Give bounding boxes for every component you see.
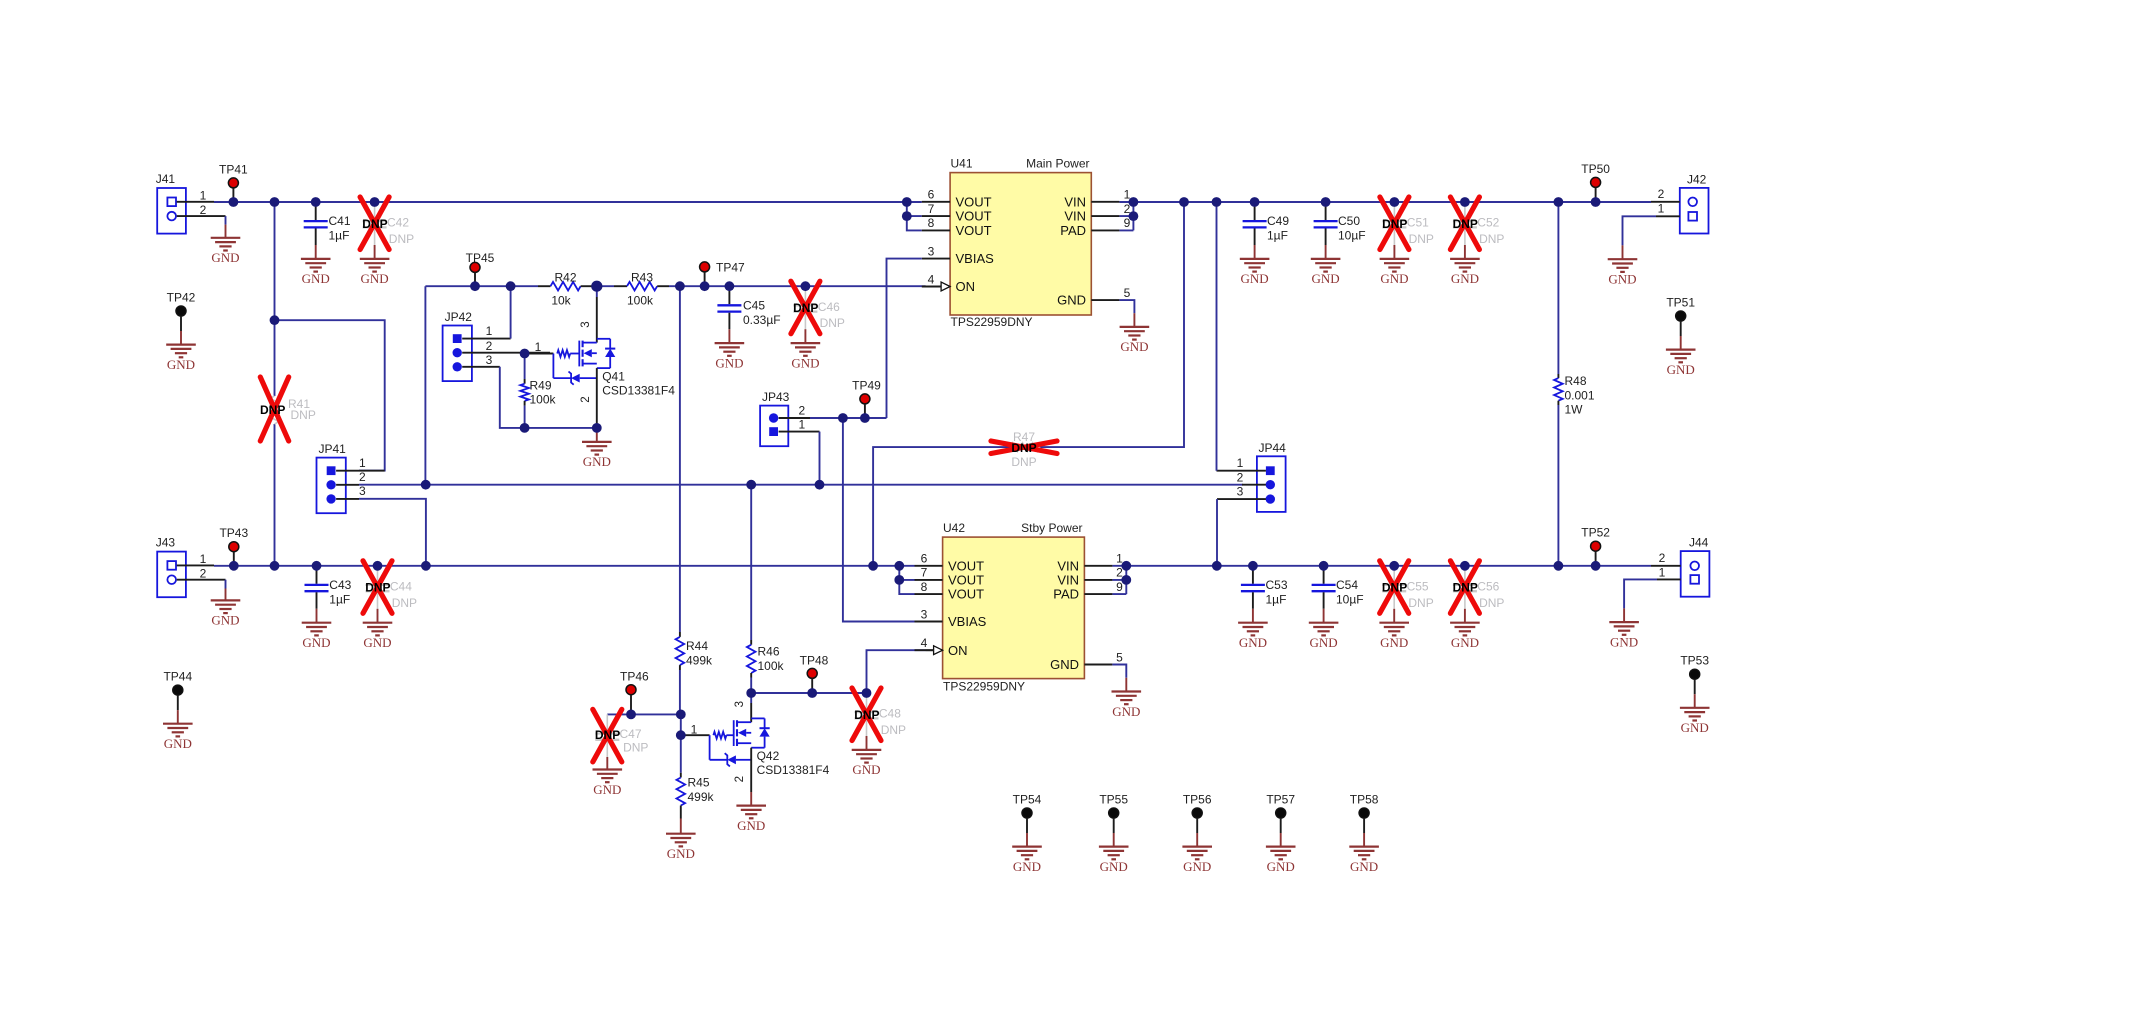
pin U41 VOUT 7 xyxy=(922,215,950,217)
svg-text:VIN: VIN xyxy=(1064,209,1086,224)
connector J41 xyxy=(157,188,186,234)
wire U42 VBIAS vertical xyxy=(843,418,915,622)
svg-text:GND: GND xyxy=(583,454,611,469)
svg-text:GND: GND xyxy=(852,762,880,777)
svg-text:2: 2 xyxy=(359,470,366,484)
svg-text:100k: 100k xyxy=(758,659,785,673)
junction dots U41 pin7 xyxy=(902,211,912,221)
svg-text:1: 1 xyxy=(1658,202,1665,216)
pin U41 VIN 1 xyxy=(1091,201,1119,203)
svg-text:DNP: DNP xyxy=(365,581,390,595)
wire Q41 source to rail xyxy=(596,368,598,424)
svg-text:GND: GND xyxy=(1667,362,1695,377)
pin U42 VOUT 8 xyxy=(915,593,943,595)
svg-text:JP42: JP42 xyxy=(445,310,473,324)
svg-text:TP48: TP48 xyxy=(800,653,829,667)
resistor R44 499k xyxy=(679,286,681,632)
svg-text:GND: GND xyxy=(1013,859,1041,874)
svg-text:JP41: JP41 xyxy=(319,442,347,456)
svg-text:VIN: VIN xyxy=(1057,573,1079,588)
capacitor C52 DNP xyxy=(1464,202,1466,220)
junction dots U42 pin7 xyxy=(894,575,904,585)
pin U42 ON 4 xyxy=(915,649,943,651)
IC U42 TPS22959DNY Stby Power xyxy=(943,537,1085,679)
svg-text:DNP: DNP xyxy=(1382,217,1407,231)
svg-text:GND: GND xyxy=(791,355,819,370)
svg-text:TP42: TP42 xyxy=(167,291,196,305)
ground Q42 source xyxy=(750,792,752,806)
svg-text:499k: 499k xyxy=(688,790,715,804)
svg-text:GND: GND xyxy=(1112,704,1140,719)
svg-text:TP46: TP46 xyxy=(620,670,649,684)
capacitor C49 1uF xyxy=(1254,202,1256,220)
transistor Q41 CSD13381F4 xyxy=(596,286,598,297)
svg-text:VOUT: VOUT xyxy=(948,587,984,602)
svg-text:GND: GND xyxy=(361,271,389,286)
svg-text:TP43: TP43 xyxy=(219,526,248,540)
svg-text:TP56: TP56 xyxy=(1183,793,1212,807)
svg-text:VOUT: VOUT xyxy=(956,209,992,224)
pin U41 VBIAS 3 xyxy=(922,258,950,260)
svg-text:1: 1 xyxy=(486,324,493,338)
wire U41 VBIAS net to TP49 row xyxy=(887,259,922,418)
wire Stby rail (left of U42) xyxy=(214,565,915,567)
capacitor C53 1uF xyxy=(1252,566,1254,584)
svg-text:GND: GND xyxy=(1380,271,1408,286)
svg-text:DNP: DNP xyxy=(1479,232,1504,246)
wire JP44-2 stub xyxy=(1242,484,1266,486)
svg-text:C50: C50 xyxy=(1338,214,1360,228)
svg-text:TPS22959DNY: TPS22959DNY xyxy=(943,679,1025,693)
svg-text:DNP: DNP xyxy=(260,403,285,417)
svg-text:J43: J43 xyxy=(156,536,176,550)
svg-text:GND: GND xyxy=(302,635,330,650)
svg-text:2: 2 xyxy=(734,776,746,782)
wire Q42 source down xyxy=(750,748,752,792)
svg-text:1: 1 xyxy=(691,722,698,736)
svg-text:TP57: TP57 xyxy=(1266,793,1295,807)
capacitor C48 DNP xyxy=(866,693,868,711)
pin U41 VIN 2 xyxy=(1091,215,1119,217)
svg-text:CSD13381F4: CSD13381F4 xyxy=(602,383,675,397)
wire VIN top rail (right of U41) xyxy=(1119,201,1651,203)
junction dots ON net row xyxy=(470,281,480,291)
svg-text:TP47: TP47 xyxy=(716,261,745,275)
svg-text:3: 3 xyxy=(359,484,366,498)
svg-text:2: 2 xyxy=(798,404,805,418)
wire JP42-1 up to ON net xyxy=(510,286,512,338)
svg-text:TP54: TP54 xyxy=(1013,793,1042,807)
ground U42 GND pin5 xyxy=(1112,665,1126,678)
svg-text:6: 6 xyxy=(928,188,935,202)
svg-text:GND: GND xyxy=(1241,271,1269,286)
svg-text:3: 3 xyxy=(1237,484,1244,498)
DNP cross R47 xyxy=(991,441,1057,454)
ground J43 pin2 xyxy=(225,580,227,589)
svg-text:7: 7 xyxy=(921,566,928,580)
svg-text:2: 2 xyxy=(200,203,207,217)
svg-text:C48: C48 xyxy=(879,707,901,721)
ground Q41 source rail xyxy=(596,428,598,442)
svg-text:C46: C46 xyxy=(818,300,840,314)
svg-text:1: 1 xyxy=(535,340,542,354)
svg-text:10µF: 10µF xyxy=(1338,229,1366,243)
svg-text:J41: J41 xyxy=(156,172,176,186)
svg-text:499k: 499k xyxy=(686,654,713,668)
svg-text:2: 2 xyxy=(1659,551,1666,565)
node R41 top xyxy=(274,202,276,396)
capacitor C46 DNP xyxy=(804,286,806,304)
svg-text:2: 2 xyxy=(200,567,207,581)
svg-text:4: 4 xyxy=(928,272,935,286)
svg-text:C49: C49 xyxy=(1267,214,1289,228)
svg-text:5: 5 xyxy=(1116,650,1123,664)
svg-text:7: 7 xyxy=(928,202,935,216)
svg-text:GND: GND xyxy=(1100,859,1128,874)
svg-text:ON: ON xyxy=(956,279,976,294)
svg-text:1W: 1W xyxy=(1565,403,1584,417)
svg-text:DNP: DNP xyxy=(820,316,845,330)
svg-text:VOUT: VOUT xyxy=(956,194,992,209)
svg-text:C45: C45 xyxy=(743,299,765,313)
svg-text:DNP: DNP xyxy=(793,301,818,315)
svg-text:TP41: TP41 xyxy=(219,162,248,176)
svg-text:GND: GND xyxy=(737,818,765,833)
svg-text:C41: C41 xyxy=(329,214,351,228)
junction dots TP46 row xyxy=(626,710,636,720)
jumper JP43 xyxy=(760,406,788,447)
svg-text:8: 8 xyxy=(921,580,928,594)
junction dot Q41 gate xyxy=(520,349,530,359)
svg-text:GND: GND xyxy=(211,250,239,265)
svg-text:0.33µF: 0.33µF xyxy=(743,313,781,327)
svg-text:GND: GND xyxy=(1451,635,1479,650)
svg-text:VBIAS: VBIAS xyxy=(956,251,995,266)
svg-text:GND: GND xyxy=(1050,657,1079,672)
IC U41 TPS22959DNY Main Power xyxy=(950,173,1091,315)
svg-text:DNP: DNP xyxy=(595,728,620,742)
wire JP43-1 down to select net xyxy=(779,431,820,433)
junction dots Q41 source rail xyxy=(520,423,530,433)
pin U42 ON arrow xyxy=(934,646,943,655)
svg-text:R42: R42 xyxy=(554,271,576,285)
junction dots Stby rail xyxy=(229,561,239,571)
capacitor C45 0.33uF xyxy=(728,286,730,304)
resistor R46 100k xyxy=(750,485,752,640)
resistor R41 DNP grey body xyxy=(270,396,279,424)
svg-text:2: 2 xyxy=(1658,187,1665,201)
svg-text:TP55: TP55 xyxy=(1099,793,1128,807)
svg-text:GND: GND xyxy=(715,355,743,370)
svg-text:C53: C53 xyxy=(1266,578,1288,592)
svg-text:GND: GND xyxy=(1239,635,1267,650)
svg-text:1: 1 xyxy=(1659,565,1666,579)
svg-text:DNP: DNP xyxy=(389,232,414,246)
jumper JP41 xyxy=(317,458,346,514)
svg-text:GND: GND xyxy=(667,846,695,861)
resistor R42 10k xyxy=(538,285,551,287)
svg-text:DNP: DNP xyxy=(1453,217,1478,231)
svg-text:GND: GND xyxy=(1057,293,1086,308)
svg-text:R49: R49 xyxy=(530,378,552,392)
wire TP46 row xyxy=(607,713,681,715)
wire U41 VIN pins 2/9 link xyxy=(1119,202,1133,230)
svg-text:1: 1 xyxy=(200,552,207,566)
capacitor C47 DNP xyxy=(606,714,608,732)
ground J44 pin1 xyxy=(1657,578,1681,580)
jumper JP44 xyxy=(1257,456,1286,512)
svg-text:Q41: Q41 xyxy=(602,370,625,384)
svg-text:3: 3 xyxy=(921,607,928,621)
junction dot Q42 gate xyxy=(676,730,686,740)
capacitor C51 DNP xyxy=(1393,202,1395,220)
svg-text:CSD13381F4: CSD13381F4 xyxy=(757,763,830,777)
wire select net JP41-2 to JP44-2 xyxy=(359,484,1243,486)
svg-text:DNP: DNP xyxy=(1409,232,1434,246)
svg-text:GND: GND xyxy=(1610,634,1638,649)
svg-text:DNP: DNP xyxy=(1011,455,1036,469)
pin U41 GND 5 xyxy=(1091,299,1119,301)
svg-text:C43: C43 xyxy=(329,578,351,592)
svg-text:2: 2 xyxy=(580,396,592,402)
connector J43 xyxy=(157,552,186,598)
resistor R48 0.001 1W xyxy=(1557,202,1559,374)
capacitor C41 1uF xyxy=(315,202,317,220)
svg-text:1µF: 1µF xyxy=(329,229,350,243)
ground J42 pin1 xyxy=(1656,215,1680,217)
svg-text:Main Power: Main Power xyxy=(1026,157,1089,171)
svg-text:R45: R45 xyxy=(688,776,710,790)
pin U41 VOUT 6 xyxy=(922,201,950,203)
svg-text:TP50: TP50 xyxy=(1581,162,1610,176)
junction dots select net xyxy=(421,480,431,490)
svg-text:TP52: TP52 xyxy=(1581,526,1610,540)
ground R45 xyxy=(680,819,682,834)
svg-text:100k: 100k xyxy=(627,293,654,307)
capacitor C55 DNP xyxy=(1393,566,1395,584)
svg-text:1: 1 xyxy=(200,189,207,203)
svg-text:2: 2 xyxy=(1237,470,1244,484)
connector J42 xyxy=(1680,188,1709,234)
pin U42 GND 5 xyxy=(1084,664,1112,666)
wire TP48 row xyxy=(751,692,866,694)
svg-text:PAD: PAD xyxy=(1053,587,1079,602)
node R41 bottom xyxy=(274,424,276,566)
svg-text:DNP: DNP xyxy=(392,596,417,610)
svg-text:DNP: DNP xyxy=(1011,441,1036,455)
svg-text:GND: GND xyxy=(363,635,391,650)
svg-text:GND: GND xyxy=(1310,635,1338,650)
wire JP44-1 up to VIN rail xyxy=(1217,470,1266,472)
svg-text:GND: GND xyxy=(1681,720,1709,735)
svg-text:C54: C54 xyxy=(1336,578,1358,592)
capacitor C56 DNP xyxy=(1464,566,1466,584)
wire U42 VOUT pins 7/8 link xyxy=(899,566,914,594)
svg-text:DNP: DNP xyxy=(362,217,387,231)
svg-text:DNP: DNP xyxy=(291,408,316,422)
junction dots TP48 row xyxy=(746,688,756,698)
svg-text:100k: 100k xyxy=(530,393,557,407)
svg-text:1: 1 xyxy=(359,456,366,470)
wire U42 VIN pins 2/9 link xyxy=(1112,566,1126,594)
svg-text:3: 3 xyxy=(928,244,935,258)
resistor R45 499k xyxy=(680,735,682,773)
svg-text:GND: GND xyxy=(164,736,192,751)
svg-text:J42: J42 xyxy=(1687,172,1707,186)
resistor R43 100k xyxy=(614,285,627,287)
svg-text:GND: GND xyxy=(1380,635,1408,650)
pin U42 PAD 9 xyxy=(1084,593,1112,595)
wire VIN top rail (left of U41) xyxy=(214,201,922,203)
svg-text:C55: C55 xyxy=(1407,579,1429,593)
svg-text:2: 2 xyxy=(486,339,493,353)
wire U41 VOUT pins 7/8 link xyxy=(907,202,922,230)
svg-text:JP43: JP43 xyxy=(762,390,790,404)
ground U41 GND pin5 xyxy=(1119,300,1134,313)
svg-text:TPS22959DNY: TPS22959DNY xyxy=(951,315,1033,329)
capacitor C42 DNP xyxy=(374,202,376,220)
svg-text:1µF: 1µF xyxy=(329,592,350,606)
svg-text:C51: C51 xyxy=(1407,216,1429,230)
svg-text:R44: R44 xyxy=(686,639,708,653)
ground J41 pin2 xyxy=(225,216,227,225)
svg-text:ON: ON xyxy=(948,643,968,658)
svg-text:VOUT: VOUT xyxy=(948,573,984,588)
wire select vertical to R42 row xyxy=(424,286,426,485)
svg-text:R46: R46 xyxy=(758,645,780,659)
resistor R47 DNP grey body xyxy=(1010,443,1040,452)
DNP cross R41 xyxy=(260,377,288,441)
svg-text:C52: C52 xyxy=(1477,216,1499,230)
junction dot Q41 drain xyxy=(591,281,602,292)
pin U42 VIN 2 xyxy=(1084,579,1112,581)
wire gate row Q42 xyxy=(680,714,682,735)
svg-text:DNP: DNP xyxy=(1408,596,1433,610)
junction dots TP49 row xyxy=(838,413,848,423)
svg-text:6: 6 xyxy=(921,552,928,566)
svg-text:C42: C42 xyxy=(387,216,409,230)
svg-text:5: 5 xyxy=(1124,286,1131,300)
svg-text:4: 4 xyxy=(921,636,928,650)
svg-text:TP51: TP51 xyxy=(1666,296,1695,310)
svg-text:8: 8 xyxy=(928,216,935,230)
svg-text:DNP: DNP xyxy=(1479,596,1504,610)
svg-text:3: 3 xyxy=(486,353,493,367)
wire Stby rail (right of U42) xyxy=(1112,565,1651,567)
svg-text:3: 3 xyxy=(580,321,592,327)
svg-text:10k: 10k xyxy=(551,294,571,308)
svg-text:TP44: TP44 xyxy=(163,670,192,684)
svg-text:R48: R48 xyxy=(1565,374,1587,388)
pin U42 VOUT 6 xyxy=(915,565,943,567)
pin U42 VOUT 7 xyxy=(915,579,943,581)
svg-text:GND: GND xyxy=(167,357,195,372)
wire JP44-3 down to Stby rail xyxy=(1217,498,1266,500)
svg-text:VOUT: VOUT xyxy=(956,223,992,238)
pin U42 VIN 1 xyxy=(1084,565,1112,567)
pin U41 PAD 9 xyxy=(1091,229,1119,231)
resistor R49 100k xyxy=(524,354,526,380)
svg-text:GND: GND xyxy=(1608,272,1636,287)
capacitor C44 DNP xyxy=(377,566,379,584)
pin U41 VOUT 8 xyxy=(922,229,950,231)
svg-text:1µF: 1µF xyxy=(1267,229,1288,243)
svg-text:PAD: PAD xyxy=(1060,223,1086,238)
svg-text:1: 1 xyxy=(798,418,805,432)
svg-text:VOUT: VOUT xyxy=(948,558,984,573)
wire JP42-3 to Q41 source rail xyxy=(500,367,597,428)
svg-text:C56: C56 xyxy=(1477,579,1499,593)
svg-text:GND: GND xyxy=(211,613,239,628)
wire U42 ON corner xyxy=(867,650,926,693)
svg-text:DNP: DNP xyxy=(623,741,648,755)
svg-text:DNP: DNP xyxy=(854,708,879,722)
svg-text:VBIAS: VBIAS xyxy=(948,614,987,629)
svg-text:TP53: TP53 xyxy=(1680,654,1709,668)
svg-text:GND: GND xyxy=(1120,339,1148,354)
svg-text:TP58: TP58 xyxy=(1350,793,1379,807)
svg-text:1µF: 1µF xyxy=(1266,592,1287,606)
junction dots top rail xyxy=(229,197,239,207)
capacitor C43 1uF xyxy=(316,566,318,584)
transistor Q42 CSD13381F4 xyxy=(750,693,752,703)
svg-text:10µF: 10µF xyxy=(1336,592,1364,606)
svg-text:GND: GND xyxy=(302,271,330,286)
svg-text:GND: GND xyxy=(1350,859,1378,874)
pin U41 ON arrow xyxy=(941,282,950,291)
connector J44 xyxy=(1681,551,1710,597)
svg-text:Q42: Q42 xyxy=(757,749,780,763)
svg-text:DNP: DNP xyxy=(1453,581,1478,595)
capacitor C50 10uF xyxy=(1325,202,1327,220)
wire JP41-3 to Stby rail xyxy=(359,499,426,566)
svg-text:1: 1 xyxy=(1237,456,1244,470)
svg-text:GND: GND xyxy=(1451,271,1479,286)
svg-text:U42: U42 xyxy=(943,521,965,535)
capacitor C54 10uF xyxy=(1323,566,1325,584)
svg-text:0.001: 0.001 xyxy=(1565,388,1595,402)
svg-text:JP44: JP44 xyxy=(1259,441,1287,455)
svg-text:GND: GND xyxy=(1312,271,1340,286)
svg-text:GND: GND xyxy=(593,782,621,797)
svg-text:U41: U41 xyxy=(951,157,973,171)
svg-text:C47: C47 xyxy=(620,727,642,741)
jumper JP42 xyxy=(443,326,472,382)
svg-text:DNP: DNP xyxy=(1382,581,1407,595)
wire R47 net right xyxy=(1040,202,1184,447)
svg-text:3: 3 xyxy=(734,701,746,707)
svg-text:VIN: VIN xyxy=(1057,558,1079,573)
svg-text:VIN: VIN xyxy=(1064,194,1086,209)
svg-text:R43: R43 xyxy=(631,271,653,285)
svg-text:TP49: TP49 xyxy=(852,378,881,392)
pin U42 VBIAS 3 xyxy=(915,621,943,623)
svg-text:Stby Power: Stby Power xyxy=(1021,521,1082,535)
svg-text:C44: C44 xyxy=(390,579,412,593)
pin U41 ON 4 xyxy=(922,286,950,288)
wire R47 net left xyxy=(873,447,1010,566)
svg-text:DNP: DNP xyxy=(881,723,906,737)
svg-text:GND: GND xyxy=(1183,859,1211,874)
svg-text:J44: J44 xyxy=(1689,536,1709,550)
wire JP41-1 loop from R41 node xyxy=(275,320,385,470)
wire JP43-2 to TP49 to U41 VBIAS corner xyxy=(779,417,810,419)
svg-text:GND: GND xyxy=(1267,859,1295,874)
svg-text:TP45: TP45 xyxy=(466,251,495,265)
wire ON net U41 (R42/R43 row) xyxy=(425,285,925,287)
junction dot R41 to JP41-1 xyxy=(270,315,280,325)
